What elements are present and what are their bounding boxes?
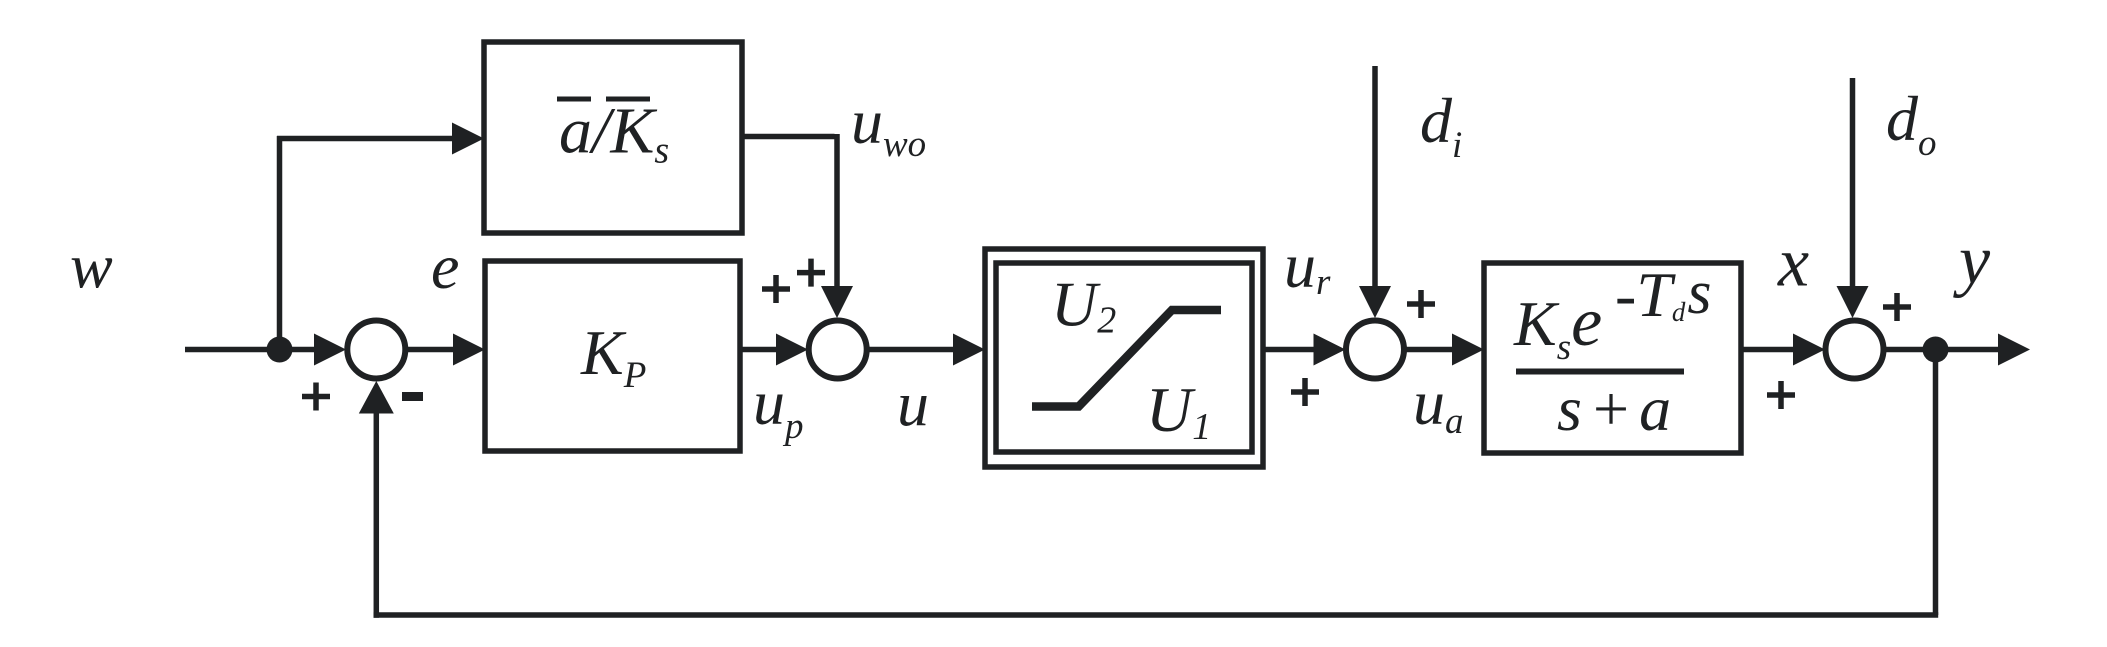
wire a/Ks output right — [742, 134, 835, 140]
plus sign above sum2 right — [797, 259, 825, 287]
wire sum4 to output y — [1884, 347, 2000, 353]
svg-text:uwo: uwo — [851, 86, 926, 165]
arrow into sum2 left — [776, 334, 808, 366]
wire sum3 to plant — [1405, 347, 1457, 353]
wire a/Ks output down to sum2 — [834, 134, 840, 290]
arrow output y — [1998, 334, 2030, 366]
wire d_i down — [1372, 66, 1378, 290]
summing junction sum3 — [1346, 321, 1404, 379]
plus sign below-left sum4 — [1767, 381, 1795, 409]
arrow into plant — [1452, 334, 1484, 366]
svg-text:u: u — [897, 369, 929, 440]
plant fraction bar — [1516, 369, 1684, 375]
svg-text:-Tds: -Tds — [1615, 259, 1712, 330]
svg-text:w: w — [70, 231, 113, 302]
block saturation outer — [985, 249, 1263, 467]
summing junction sum4 — [1826, 321, 1884, 379]
minus sign right of feedback arrow — [402, 392, 423, 401]
svg-text:U1: U1 — [1146, 374, 1211, 448]
svg-text:ua: ua — [1413, 367, 1464, 442]
svg-text:up: up — [753, 367, 804, 447]
block saturation inner — [996, 263, 1252, 452]
plus sign right of d_o — [1883, 293, 1911, 321]
arrow into sum4 left — [1793, 334, 1825, 366]
svg-text:y: y — [1953, 222, 1991, 299]
svg-text:KP: KP — [580, 317, 646, 396]
block plant — [1484, 263, 1741, 453]
wire sum1 to Kp — [406, 347, 457, 353]
svg-text:e: e — [431, 231, 459, 302]
saturation curve — [1032, 310, 1221, 407]
arrow feedback into sum1 bottom — [359, 381, 394, 414]
wire saturation to sum3 — [1263, 347, 1316, 353]
plus sign below-left sum3 — [1291, 378, 1319, 406]
wire Kp to sum2 — [740, 347, 780, 353]
svg-text:a/Ks: a/Ks — [559, 95, 669, 172]
svg-text:do: do — [1886, 83, 1937, 164]
arrow into sum1 — [314, 334, 346, 366]
arrow down into sum2 — [821, 286, 853, 318]
svg-text:x: x — [1777, 225, 1809, 302]
summing junction sum1 — [347, 321, 405, 379]
plus sign above sum2 left — [762, 275, 790, 303]
arrow into a/Ks — [452, 123, 484, 155]
arrow d_o into sum4 — [1837, 286, 1869, 318]
node dot before sum1 — [267, 337, 293, 363]
wire node up to a/Ks path — [277, 136, 283, 352]
wire feedback bottom — [374, 612, 1939, 618]
wire w input — [185, 347, 318, 353]
wire into a/Ks block — [277, 136, 455, 142]
wire sum2 to saturation — [867, 347, 957, 353]
svg-text:Kse: Kse — [1513, 284, 1602, 368]
arrow into sum3 left — [1314, 334, 1346, 366]
node dot after sum4 — [1923, 337, 1949, 363]
wire feedback up to sum1 — [374, 413, 380, 618]
svg-text:U2: U2 — [1051, 269, 1116, 342]
svg-text:s+a: s+a — [1557, 373, 1678, 444]
plus sign below-left sum1 — [302, 383, 330, 411]
block a/Ks — [484, 42, 742, 233]
label a/Ks bar over a — [557, 97, 591, 102]
block Kp — [485, 261, 740, 451]
arrow d_i into sum3 — [1359, 286, 1391, 318]
arrow into saturation — [953, 334, 985, 366]
wire plant to sum4 — [1741, 347, 1795, 353]
wire d_o down — [1850, 78, 1856, 290]
plus sign right of d_i — [1407, 290, 1435, 318]
svg-text:di: di — [1420, 85, 1462, 166]
wire feedback down from node — [1933, 350, 1939, 616]
arrow into Kp — [453, 334, 485, 366]
svg-text:ur: ur — [1284, 230, 1331, 303]
summing junction sum2 — [809, 321, 867, 379]
label a/Ks bar over K — [606, 97, 650, 102]
